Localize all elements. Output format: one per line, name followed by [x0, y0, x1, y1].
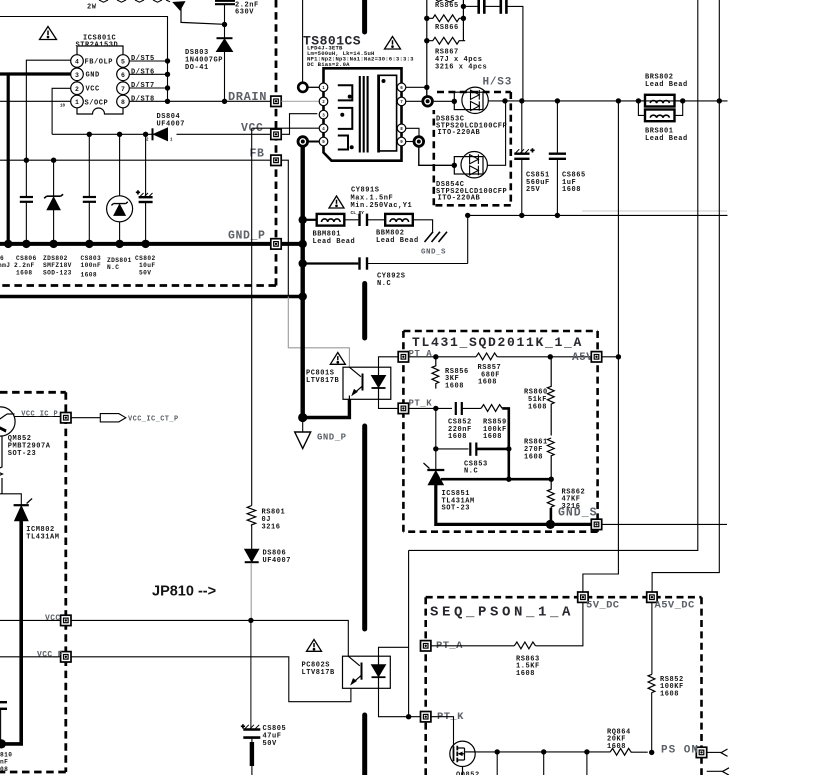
capacitor CY892S [360, 257, 368, 269]
wire RS801 to DS806 [251, 526, 253, 549]
resistor RM fragment [0, 436, 3, 494]
inductor BRS801 bead parallel [638, 101, 682, 121]
capacitor CS865 [549, 101, 566, 215]
wire vertical A [409, 0, 698, 550]
svg-text:50V: 50V [263, 740, 278, 748]
dashed box H/S3 [434, 92, 511, 205]
wire aux winding line pin4 [252, 127, 321, 129]
wire CS853 row [435, 408, 437, 469]
wire ring to DS854 [419, 147, 455, 166]
svg-text:D/ST7: D/ST7 [131, 82, 155, 90]
svg-text:CY891S: CY891S [351, 186, 380, 194]
wire pin9 to ring [406, 141, 414, 143]
svg-text:Lead Bead: Lead Bead [645, 135, 688, 143]
svg-text:JP810 -->: JP810 --> [152, 584, 216, 600]
svg-text:GND: GND [86, 72, 100, 80]
capacitor CY891S [360, 214, 368, 226]
capacitor CS803 [83, 197, 96, 244]
ground GND_S chassis [425, 232, 448, 242]
wire caps to 5V drop [507, 6, 523, 100]
wire D/ST5 [129, 60, 167, 62]
inductor BBM802 bead [385, 214, 413, 226]
svg-text:1608: 1608 [483, 433, 502, 441]
wire opto emitter thick to gnd [303, 399, 350, 417]
warning triangle PC801S [330, 353, 345, 365]
port PT_K seq [421, 712, 431, 722]
wire RS862 to gnd bus [550, 508, 553, 524]
svg-text:1608: 1608 [528, 403, 547, 411]
svg-text:1608: 1608 [448, 433, 467, 441]
node D/ST junctions [165, 58, 170, 104]
resistor RS862 [547, 479, 554, 508]
wire thick GND drop [7, 74, 10, 244]
wire LED anode to PT_A [379, 357, 399, 367]
ground GND_P triangle [295, 432, 311, 449]
port VCC [271, 129, 281, 139]
node 5V rail dots [519, 98, 722, 103]
svg-text:1608: 1608 [660, 690, 679, 698]
opto PC802S [343, 656, 391, 688]
svg-text:1608: 1608 [562, 186, 581, 194]
svg-text:SEQ_PSON_1_A: SEQ_PSON_1_A [430, 605, 574, 621]
wire BBM802 to gnd [413, 220, 433, 232]
port A5V [591, 352, 601, 362]
svg-text:A5V_DC: A5V_DC [655, 600, 696, 612]
warning triangle transformer [385, 37, 401, 50]
wire drain rail [475, 751, 610, 753]
svg-text:ITO-220AB: ITO-220AB [438, 129, 481, 137]
wire to arrow connector [71, 417, 100, 419]
svg-text:SOD-123: SOD-123 [43, 269, 72, 276]
wire D/ST6 [129, 73, 167, 75]
wire pin2 VCC elbow [52, 88, 71, 134]
svg-text:3: 3 [75, 72, 79, 79]
svg-text:7: 7 [121, 86, 125, 93]
svg-text:N.C: N.C [107, 264, 119, 271]
svg-text:+: + [241, 724, 245, 731]
warning triangle CY891S [329, 196, 344, 208]
wire GND_S out [602, 523, 727, 525]
svg-text:SOT-23: SOT-23 [442, 505, 471, 513]
wire A5V drop [583, 101, 619, 592]
resistor RQ864 [610, 748, 648, 755]
content [0, 17, 271, 244]
svg-text:1608: 1608 [81, 271, 97, 278]
svg-text:5: 5 [121, 59, 125, 66]
port PT_A seq [421, 641, 431, 651]
port FB [271, 155, 281, 165]
capacitor snubber 2 [501, 0, 507, 14]
svg-text:GND_S: GND_S [421, 248, 446, 256]
svg-text:D/ST8: D/ST8 [131, 96, 155, 104]
wire CS803 drop [88, 134, 90, 196]
svg-text:08: 08 [0, 766, 8, 773]
svg-text:6: 6 [121, 72, 125, 79]
wire pin4 FB/OLP [26, 60, 70, 196]
svg-text:N.C: N.C [464, 468, 478, 476]
svg-text:ZDS802: ZDS802 [43, 255, 68, 262]
wire PT_K row / gate [409, 717, 454, 747]
wire PT_K row [409, 407, 452, 409]
wire VCC port to pin3 [281, 114, 317, 135]
inductor BBM801 bead [317, 214, 345, 226]
wire RS857 to A5V [497, 356, 592, 358]
svg-text:3216 x 4pcs: 3216 x 4pcs [435, 64, 487, 72]
svg-text:630V: 630V [235, 9, 254, 17]
node thick junctions [298, 216, 307, 423]
wire thick lower [0, 295, 303, 298]
wire ICM802 anode thick [2, 521, 21, 744]
wire thick GND pin3 [0, 72, 71, 75]
svg-text:CS803: CS803 [81, 255, 102, 262]
barrier bar above transformer [362, 0, 367, 32]
svg-text:GND_S: GND_S [558, 507, 598, 520]
dashed box SEQ_PSON_1_A [426, 597, 702, 775]
wire RS852 drop [651, 602, 653, 674]
port 5V_DC [578, 592, 588, 602]
warning triangle PC802S [307, 640, 322, 652]
svg-text:1: 1 [75, 99, 79, 106]
dashed box left module [0, 392, 66, 772]
svg-text:PT_K: PT_K [409, 399, 433, 409]
value labels caps row [0, 255, 156, 278]
wire LED cathode to PT_K row [379, 688, 409, 716]
svg-text:PS ON: PS ON [661, 744, 699, 756]
inductor BRS802 bead [638, 95, 682, 107]
connector arrow VCC_IC_CT_P [100, 414, 126, 422]
svg-text:810: 810 [0, 751, 12, 758]
transformer winding secondary [379, 75, 397, 153]
wire DRAIN line [129, 100, 271, 102]
svg-text:D/ST5: D/ST5 [131, 55, 155, 63]
wire D/ST7 [129, 87, 167, 89]
resistor RS852 [648, 674, 655, 693]
node ring pin5 filled [298, 137, 319, 147]
svg-text:LTV817B: LTV817B [302, 669, 336, 677]
wire primary top lead [302, 0, 304, 82]
svg-text:ZDS801: ZDS801 [107, 257, 132, 264]
wire stubs to bottom [497, 752, 587, 775]
svg-text:VCC: VCC [45, 614, 61, 623]
wire RS859 corner thick [502, 408, 509, 449]
wire PC802 feed down [408, 550, 410, 716]
svg-text:1608: 1608 [607, 743, 626, 751]
gray aux line right [582, 210, 727, 212]
resistor fragment top (zigzag tips) [99, 0, 170, 2]
svg-text:nF: nF [0, 759, 8, 766]
port PS_ON [696, 747, 706, 757]
wire bead to cap [344, 219, 358, 221]
wire RS863 to 5V_DC [536, 602, 583, 645]
svg-text:2W: 2W [87, 4, 97, 12]
port DRAIN [271, 96, 281, 106]
svg-text:8: 8 [121, 99, 125, 106]
svg-text:3216: 3216 [262, 524, 281, 532]
capacitor CS806 [20, 197, 33, 244]
port GND_P [271, 239, 281, 249]
svg-text:LTV817B: LTV817B [306, 377, 340, 385]
wire CY892S to rail [368, 263, 468, 265]
wire top feed to D/ST column [0, 17, 168, 102]
wire VCC row [0, 620, 348, 656]
capacitor snubber 1 [479, 0, 485, 14]
resistor RS863 [514, 642, 535, 649]
svg-text:H/S3: H/S3 [483, 77, 513, 89]
wire pin6 to rail [406, 86, 427, 88]
wire CS802 drop [145, 134, 147, 196]
svg-text:DRAIN: DRAIN [228, 90, 267, 104]
svg-text:10: 10 [60, 105, 66, 109]
wire ZDS801 drop [119, 134, 121, 196]
svg-text:ITO-220AB: ITO-220AB [438, 195, 481, 203]
svg-text:TL431AM: TL431AM [26, 534, 59, 542]
svg-text:Lead Bead: Lead Bead [313, 238, 356, 246]
capacitor CS852 [456, 402, 462, 415]
wire between caps [485, 5, 500, 7]
wire FB port down to opto collector [281, 160, 288, 296]
op-amp IC U ICS801C STR2A153D [71, 46, 130, 114]
LED in PC801S [372, 367, 386, 399]
port VCC [61, 615, 71, 625]
wire cap to BBM802 [368, 219, 385, 221]
svg-text:A5V: A5V [572, 352, 593, 364]
port GND_S [591, 519, 601, 529]
svg-text:RS865: RS865 [435, 2, 459, 10]
wire RS852 to PS_ON [651, 693, 653, 752]
wire S/OCP pin1 [0, 100, 71, 102]
svg-text:DO-41: DO-41 [185, 64, 209, 72]
diode DS806 [245, 549, 259, 562]
svg-text:FB/OLP: FB/OLP [85, 58, 114, 66]
svg-text:1608: 1608 [445, 382, 464, 390]
diode DS853C dual [454, 87, 488, 113]
wire PS_ON out + chevron [707, 751, 721, 753]
wire bead row left [303, 219, 317, 221]
wire DS854 cathode up [487, 101, 505, 165]
svg-text:4: 4 [75, 59, 79, 66]
svg-text:1608: 1608 [478, 379, 497, 387]
port PT_A [398, 352, 408, 362]
svg-text:TL431_SQD2011K_1_A: TL431_SQD2011K_1_A [412, 335, 583, 350]
wire thick primary gnd [301, 146, 305, 418]
svg-text:STR2A153D: STR2A153D [76, 42, 119, 50]
node VCC/CS805 junction [248, 618, 253, 623]
transistor QM852 [0, 407, 15, 436]
dashed box TL431_SQD2011K_1_A [403, 331, 597, 532]
wire adj row thick [441, 478, 551, 481]
svg-text:N.C: N.C [377, 280, 391, 288]
svg-text:+: + [136, 190, 140, 197]
wire VCC line [52, 133, 151, 135]
svg-text:D/ST6: D/ST6 [131, 68, 155, 76]
svg-text:Min.250Vac,Y1: Min.250Vac,Y1 [351, 202, 413, 210]
spark-gap arrow wire [174, 2, 225, 25]
zener ZDS801 in circle [107, 196, 133, 244]
wire ZDS802 drop [53, 160, 55, 196]
wire pin7 to ring [406, 100, 422, 102]
capacitor CS851 560uF [514, 101, 534, 215]
port VCC_IC_P [61, 413, 71, 423]
transformer windings primary [338, 85, 353, 149]
wire snubber cap row [463, 5, 477, 7]
diode DS854C dual [454, 152, 487, 178]
wire FB line [0, 159, 271, 161]
transistor QQ852 mosfet [450, 741, 475, 775]
wire A5V to bus [602, 356, 619, 358]
wire 5V rail [432, 100, 454, 102]
svg-text:CL_BY: CL_BY [351, 210, 365, 216]
resistor RS865 (top, partial) [427, 0, 464, 95]
barrier bars [362, 284, 367, 339]
svg-text:+: + [531, 148, 535, 155]
node ring pin1 [298, 83, 319, 92]
svg-text:1608: 1608 [16, 269, 32, 276]
opto PC801S [343, 367, 391, 399]
wire LED anode link [379, 647, 409, 656]
wire GND_S rail [468, 214, 728, 216]
resistor RS861 [547, 438, 554, 480]
wire LED cathode to PT_K [379, 399, 399, 408]
diode DS803 [217, 38, 233, 51]
shunt ICS851 TL431AM [424, 463, 445, 485]
svg-text:DC Bias=2.0A: DC Bias=2.0A [307, 61, 350, 68]
node FB junctions [24, 158, 57, 163]
wire rail to CY892S [467, 215, 469, 263]
svg-text:RS866: RS866 [435, 24, 459, 32]
svg-text:CS806: CS806 [16, 255, 37, 262]
svg-text:GND_P: GND_P [317, 433, 347, 443]
shunt ICM802 TL431AM [14, 499, 32, 521]
capacitor CM810 [0, 702, 7, 744]
svg-text:UF4007: UF4007 [263, 557, 292, 565]
capacitor CS853 [470, 443, 476, 456]
svg-text:QQ852: QQ852 [456, 772, 480, 775]
wire to ICM802 [0, 494, 21, 505]
resistor RS866 [427, 15, 465, 22]
svg-text:CS802: CS802 [135, 255, 156, 262]
node ring H/S3 input [423, 97, 433, 107]
warning triangle near IC [40, 27, 57, 40]
svg-text:VCC_P: VCC_P [37, 650, 63, 659]
wire PT_A row [409, 356, 476, 358]
port PT_K [398, 403, 408, 413]
wire TL431 anode gnd thick [436, 485, 593, 525]
resistor RS867 [427, 37, 465, 44]
svg-text:5V_DC: 5V_DC [586, 600, 620, 612]
svg-text:Lead Bead: Lead Bead [376, 237, 419, 245]
node cap/diode junctions [222, 22, 227, 104]
svg-text:2: 2 [75, 86, 79, 93]
resistor RS856 [432, 357, 439, 389]
diode DS804 [153, 128, 168, 141]
wire CY892S row [303, 262, 359, 264]
wire aux drop long [251, 128, 253, 505]
capacitor C 2.2nF 630V top [215, 1, 235, 4]
svg-text:hmJ: hmJ [0, 262, 10, 269]
wire gnd stub [302, 418, 304, 432]
port A5V_DC [647, 592, 657, 602]
transformer T TS801CS body [319, 68, 406, 160]
port VCC_P [61, 652, 71, 662]
wire GND_P bus [0, 242, 303, 246]
transformer core [360, 76, 368, 153]
svg-text:SOT-23: SOT-23 [8, 450, 37, 458]
svg-text:PT_A: PT_A [409, 349, 433, 359]
resistor RS857 [476, 353, 497, 360]
resistor RS801 [247, 506, 256, 527]
svg-text:VCC: VCC [86, 86, 100, 94]
node ring sec filled [414, 137, 424, 147]
dashed box primary module [0, 0, 276, 286]
svg-text:VCC_IC_P: VCC_IC_P [21, 410, 58, 418]
svg-text:S/OCP: S/OCP [85, 99, 109, 107]
svg-text:25V: 25V [526, 186, 541, 194]
svg-text:10uF: 10uF [139, 262, 155, 269]
wire VCC_IC_P [15, 416, 61, 418]
svg-text:1608: 1608 [524, 453, 543, 461]
svg-text:2.2nF: 2.2nF [14, 262, 35, 269]
wire vertical B [652, 0, 719, 592]
wire pin8 elbow [406, 128, 419, 136]
capacitor CS802 polar [136, 190, 153, 244]
wire DRAIN gray to pin2 [281, 100, 319, 102]
svg-text:UF4007: UF4007 [157, 121, 186, 129]
wire VCC_P row [0, 657, 351, 702]
node VCC line junctions [87, 132, 149, 137]
svg-text:50V: 50V [139, 269, 151, 276]
svg-text:Lead Bead: Lead Bead [645, 81, 688, 89]
svg-text:100nF: 100nF [81, 262, 102, 269]
svg-text:1608: 1608 [516, 670, 535, 678]
svg-text:6: 6 [0, 255, 4, 262]
resistor RS859 [481, 405, 502, 412]
wire lower stub + chevron [707, 770, 723, 772]
svg-text:SMFZ18V: SMFZ18V [43, 262, 72, 269]
wire cap to diode [224, 5, 226, 102]
wire DS806 gray to VCC line [250, 563, 252, 621]
svg-text:GND_P: GND_P [228, 230, 266, 243]
wire pin6 rail to ring [426, 87, 428, 96]
resistor RS860 [547, 357, 554, 436]
node bus junction dots [4, 240, 150, 248]
node resistor rail dots [424, 4, 466, 44]
wire PT_A to RS863 [431, 645, 514, 647]
LED in PC802S [372, 656, 386, 688]
zener ZDS802 [44, 194, 63, 244]
svg-text:VCC_IC_CT_P: VCC_IC_CT_P [128, 415, 179, 423]
capacitor CS805 [241, 620, 260, 775]
